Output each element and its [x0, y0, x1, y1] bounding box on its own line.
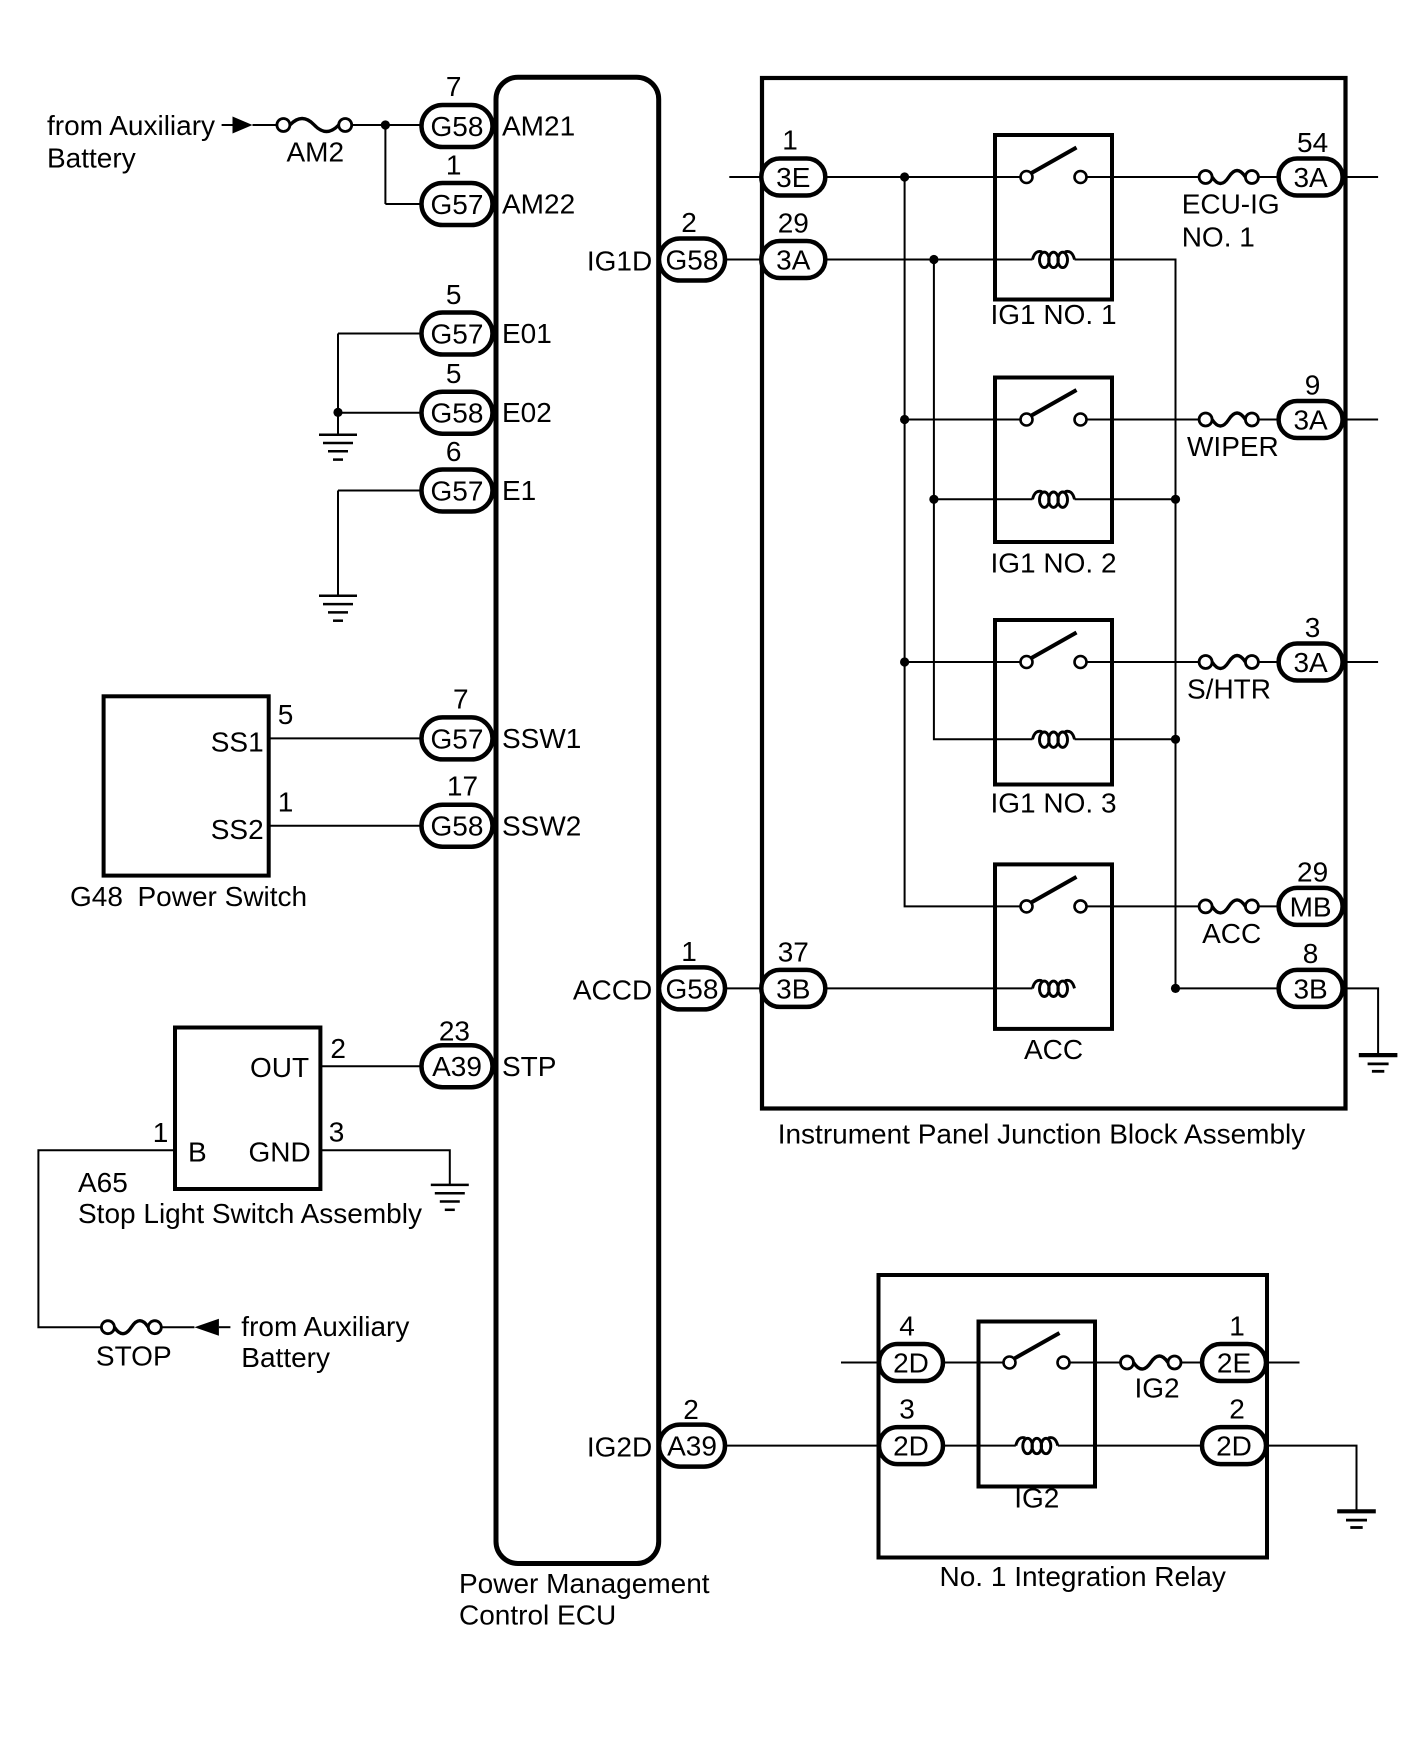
pin 9 label — [1305, 370, 1321, 401]
svg-text:Power Switch: Power Switch — [138, 881, 308, 912]
pin label SSW2 — [502, 810, 581, 841]
svg-text:3B: 3B — [776, 973, 810, 1004]
wire — [943, 1362, 1004, 1364]
pin label STP — [502, 1051, 556, 1082]
node junction — [900, 415, 909, 424]
svg-text:2: 2 — [683, 1394, 699, 1425]
svg-text:IG1 NO. 2: IG1 NO. 2 — [990, 547, 1116, 578]
pin label SS2 — [211, 814, 264, 845]
wire — [161, 1326, 194, 1328]
svg-text:B: B — [188, 1137, 207, 1168]
wire — [825, 259, 1032, 261]
svg-text:Power Management: Power Management — [459, 1568, 710, 1599]
wire — [725, 987, 761, 989]
svg-text:ACC: ACC — [1202, 918, 1261, 949]
svg-text:1: 1 — [278, 787, 294, 818]
svg-text:ACCD: ACCD — [573, 974, 652, 1005]
connector A39 pin 2 IG2D — [659, 1425, 725, 1467]
wire — [1343, 176, 1379, 178]
relay IG2 coil — [1016, 1438, 1058, 1454]
svg-text:G48: G48 — [70, 881, 123, 912]
ground (E01/E02) — [319, 435, 357, 460]
fuse AM2 — [277, 119, 352, 132]
svg-text:STP: STP — [502, 1051, 556, 1082]
pin 2 label — [683, 1394, 699, 1425]
svg-text:5: 5 — [446, 358, 462, 389]
pin 4 label — [899, 1311, 915, 1342]
svg-text:ACC: ACC — [1024, 1034, 1083, 1065]
wire — [729, 176, 761, 178]
label fuse ACC — [1202, 918, 1261, 949]
wire — [337, 491, 339, 596]
pin 1 label — [446, 150, 462, 181]
fuse ACC — [1199, 900, 1258, 913]
wire — [1070, 1362, 1121, 1364]
svg-text:STOP: STOP — [96, 1340, 172, 1371]
wire — [1258, 419, 1278, 421]
svg-text:6: 6 — [446, 436, 462, 467]
svg-text:2: 2 — [681, 207, 697, 238]
pin label OUT — [250, 1052, 309, 1083]
wire — [1075, 738, 1176, 740]
pin 29 label — [1297, 856, 1328, 887]
pin 8 label — [1303, 938, 1319, 969]
svg-text:G57: G57 — [431, 723, 484, 754]
connector A39 pin 23 STP — [422, 1045, 493, 1087]
wire vertical bus A — [905, 177, 1021, 906]
pin 23 label — [439, 1015, 470, 1046]
connector 3E pin 1 — [761, 159, 825, 196]
component G48 Power Switch box — [104, 696, 269, 875]
pin label SSW1 — [502, 723, 581, 754]
ground (A65 GND) — [431, 1185, 469, 1210]
label fuse WIPER — [1187, 431, 1279, 462]
svg-text:IG2D: IG2D — [587, 1432, 652, 1463]
svg-text:2: 2 — [1229, 1394, 1245, 1425]
wire — [219, 1326, 231, 1328]
fuse IG2 — [1121, 1356, 1182, 1369]
svg-text:2: 2 — [330, 1033, 346, 1064]
wire — [841, 1362, 879, 1364]
wire — [338, 333, 422, 335]
svg-text:GND: GND — [248, 1137, 310, 1168]
label G48 Power Switch — [70, 881, 307, 912]
svg-text:Instrument Panel Junction Bloc: Instrument Panel Junction Block Assembly — [778, 1119, 1306, 1150]
svg-text:from Auxiliary: from Auxiliary — [47, 110, 215, 141]
relay ACC box — [995, 864, 1112, 1029]
wire — [1258, 176, 1278, 178]
svg-text:3E: 3E — [776, 162, 810, 193]
wire — [1258, 905, 1278, 907]
svg-text:1: 1 — [446, 150, 462, 181]
wire — [825, 176, 1020, 178]
node junction — [929, 255, 938, 264]
svg-text:IG1 NO. 1: IG1 NO. 1 — [990, 299, 1116, 330]
pin 7 label — [453, 683, 469, 714]
svg-text:Control ECU: Control ECU — [459, 1600, 616, 1631]
connector G57 pin 5 E01 — [422, 313, 493, 355]
ground (3B) — [1359, 1055, 1398, 1071]
svg-text:from Auxiliary: from Auxiliary — [241, 1311, 409, 1342]
pin 1 label — [1229, 1311, 1245, 1342]
svg-text:G57: G57 — [431, 189, 484, 220]
svg-text:2D: 2D — [1216, 1431, 1252, 1462]
svg-text:3: 3 — [329, 1117, 345, 1148]
svg-text:Stop Light Switch Assembly: Stop Light Switch Assembly — [78, 1198, 422, 1229]
label relay IG1 NO. 1 — [990, 299, 1116, 330]
wire — [269, 825, 422, 827]
wire — [943, 1445, 1016, 1447]
relay IG1 NO. 1 switch contacts — [1021, 148, 1087, 184]
wire — [337, 334, 339, 435]
wire — [1087, 661, 1200, 663]
svg-text:1: 1 — [1229, 1311, 1245, 1342]
svg-text:E1: E1 — [502, 475, 536, 506]
pin label E02 — [502, 397, 552, 428]
pin 2 label — [681, 207, 697, 238]
svg-text:WIPER: WIPER — [1187, 431, 1279, 462]
connector G57 pin 1 AM22 — [422, 183, 493, 225]
label STOP — [96, 1340, 172, 1371]
pin label IG2D — [587, 1432, 652, 1463]
svg-text:G57: G57 — [431, 476, 484, 507]
wire — [1087, 419, 1200, 421]
wire — [1258, 661, 1278, 663]
label fuse S/HTR — [1187, 674, 1271, 705]
pin label B — [188, 1137, 207, 1168]
source text from Auxiliary Battery (top) — [47, 110, 215, 173]
svg-text:NO. 1: NO. 1 — [1182, 222, 1255, 253]
arrow left (battery feed) — [194, 1319, 219, 1336]
pin 1 label — [782, 124, 798, 155]
relay IG1 NO. 2 coil — [1033, 491, 1075, 507]
wire — [1087, 176, 1200, 178]
node junction — [1171, 495, 1180, 504]
svg-text:5: 5 — [278, 699, 294, 730]
wire — [905, 661, 1021, 663]
svg-text:SSW2: SSW2 — [502, 810, 581, 841]
relay ACC coil — [1033, 980, 1075, 996]
wire — [338, 412, 422, 414]
wire — [1181, 1362, 1202, 1364]
relay IG1 NO. 3 switch contacts — [1021, 633, 1087, 669]
wire — [320, 1065, 421, 1067]
svg-text:G57: G57 — [431, 319, 484, 350]
wire — [934, 498, 1033, 500]
svg-text:3A: 3A — [776, 245, 811, 276]
wire — [1266, 1362, 1300, 1364]
connector 2D pin 4 — [879, 1344, 943, 1381]
pin 2 label — [330, 1033, 346, 1064]
connector MB pin 29 — [1279, 888, 1343, 925]
pin 54 label — [1297, 127, 1328, 158]
pin 6 label — [446, 436, 462, 467]
relay IG1 NO. 1 coil — [1033, 251, 1075, 267]
label relay IG1 NO. 2 — [990, 547, 1116, 578]
connector 3B pin 8 — [1279, 970, 1343, 1007]
pin label GND — [248, 1137, 310, 1168]
pin 5 label — [446, 358, 462, 389]
wire — [338, 490, 422, 492]
svg-text:IG2: IG2 — [1014, 1483, 1059, 1514]
svg-text:7: 7 — [453, 683, 469, 714]
wire — [825, 987, 1032, 989]
svg-text:5: 5 — [446, 279, 462, 310]
relay IG2 box — [979, 1322, 1096, 1487]
fuse WIPER — [1199, 413, 1258, 426]
svg-text:2D: 2D — [893, 1431, 929, 1462]
svg-text:1: 1 — [681, 936, 697, 967]
node junction — [900, 657, 909, 666]
svg-text:Battery: Battery — [241, 1342, 330, 1373]
wire — [1343, 988, 1379, 1055]
label relay IG1 NO. 3 — [990, 787, 1116, 818]
pin 5 label — [278, 699, 294, 730]
relay IG1 NO. 2 switch contacts — [1021, 390, 1087, 426]
svg-text:7: 7 — [446, 71, 462, 102]
wire — [725, 259, 761, 261]
svg-text:29: 29 — [778, 208, 809, 239]
ground (No. 1 Integration Relay) — [1337, 1511, 1376, 1527]
svg-text:3A: 3A — [1293, 405, 1328, 436]
svg-text:8: 8 — [1303, 938, 1319, 969]
pin label IG1D — [587, 246, 652, 277]
node junction to AM21/AM22 — [381, 120, 390, 129]
node junction — [1171, 735, 1180, 744]
label fuse ECU-IG NO. 1 — [1182, 189, 1280, 253]
relay IG1 NO. 1 box — [995, 135, 1112, 300]
pin 1 label — [153, 1117, 169, 1148]
connector G58 pin 5 E02 — [422, 392, 493, 434]
pin 1 label — [681, 936, 697, 967]
svg-text:G58: G58 — [431, 398, 484, 429]
svg-text:No. 1 Integration Relay: No. 1 Integration Relay — [940, 1561, 1226, 1592]
pin label SS1 — [211, 727, 264, 758]
label No. 1 Integration Relay — [940, 1561, 1226, 1592]
pin 37 label — [778, 937, 809, 968]
wire — [905, 419, 1021, 421]
ground (E1) — [319, 596, 357, 621]
svg-text:3A: 3A — [1293, 647, 1328, 678]
svg-text:SSW1: SSW1 — [502, 723, 581, 754]
label A65 Stop Light Switch Assembly — [78, 1167, 422, 1229]
wire — [1087, 905, 1200, 907]
svg-text:23: 23 — [439, 1015, 470, 1046]
label relay IG2 — [1014, 1483, 1059, 1514]
svg-text:3: 3 — [899, 1394, 915, 1425]
connector 3A pin 9 — [1279, 401, 1343, 438]
Instrument Panel Junction Block Assembly outline — [762, 78, 1346, 1109]
wire — [725, 1445, 879, 1447]
label Power Management Control ECU — [459, 1568, 710, 1631]
svg-text:4: 4 — [899, 1311, 915, 1342]
svg-text:Battery: Battery — [47, 143, 136, 174]
wire — [1343, 661, 1379, 663]
pin 17 label — [447, 771, 478, 802]
pin 5 label — [446, 279, 462, 310]
wire — [1058, 1445, 1202, 1447]
source text from Auxiliary Battery (bottom) — [241, 1311, 409, 1373]
svg-text:1: 1 — [782, 124, 798, 155]
svg-text:G58: G58 — [666, 973, 719, 1004]
label fuse IG2 — [1135, 1373, 1180, 1404]
fuse ECU-IG NO. 1 — [1199, 171, 1258, 184]
svg-text:3B: 3B — [1293, 973, 1327, 1004]
wire — [1266, 1446, 1357, 1512]
svg-text:G58: G58 — [666, 245, 719, 276]
No. 1 Integration Relay outline — [879, 1275, 1268, 1558]
pin 2 label — [1229, 1394, 1245, 1425]
arrow right (battery feed) — [233, 117, 253, 134]
svg-text:E01: E01 — [502, 318, 552, 349]
svg-text:2E: 2E — [1217, 1348, 1251, 1379]
relay IG1 NO. 3 coil — [1033, 731, 1075, 747]
pin 7 label — [446, 71, 462, 102]
pin 29 label — [778, 208, 809, 239]
connector 3A pin 29 — [761, 241, 825, 278]
svg-text:E02: E02 — [502, 397, 552, 428]
pin label E1 — [502, 475, 536, 506]
svg-text:17: 17 — [447, 771, 478, 802]
svg-text:G58: G58 — [431, 111, 484, 142]
connector G57 pin 6 E1 — [422, 470, 493, 512]
wire — [352, 124, 422, 126]
node junction — [900, 172, 909, 181]
connector 3B pin 37 — [761, 970, 825, 1007]
svg-text:2D: 2D — [893, 1348, 929, 1379]
pin 3 label — [899, 1394, 915, 1425]
label relay ACC — [1024, 1034, 1083, 1065]
svg-text:MB: MB — [1290, 891, 1332, 922]
svg-text:9: 9 — [1305, 370, 1321, 401]
connector G58 pin 1 ACCD — [659, 967, 725, 1009]
connector G57 pin 7 SSW1 — [422, 717, 493, 759]
svg-text:A65: A65 — [78, 1167, 128, 1198]
svg-text:AM2: AM2 — [287, 136, 345, 167]
relay IG1 NO. 2 box — [995, 378, 1112, 543]
wire — [385, 203, 421, 205]
svg-text:54: 54 — [1297, 127, 1328, 158]
pin label AM21 — [502, 111, 575, 142]
connector 2D pin 2 — [1202, 1427, 1266, 1464]
wire — [1343, 419, 1379, 421]
connector 2E pin 1 — [1202, 1344, 1266, 1381]
wire — [38, 1150, 175, 1327]
svg-text:29: 29 — [1297, 856, 1328, 887]
wire — [384, 125, 386, 204]
wire — [269, 737, 422, 739]
label AM2 — [287, 136, 345, 167]
connector G58 pin 2 IG1D — [659, 239, 725, 281]
node junction — [1171, 984, 1180, 993]
svg-text:SS1: SS1 — [211, 727, 264, 758]
node junction E01/E02 ground — [333, 408, 342, 417]
svg-text:OUT: OUT — [250, 1052, 309, 1083]
wire — [222, 124, 233, 126]
wire — [320, 1150, 449, 1185]
wire — [1075, 498, 1176, 500]
pin 3 label — [329, 1117, 345, 1148]
pin label E01 — [502, 318, 552, 349]
connector 3A pin 3 — [1279, 644, 1343, 681]
fuse STOP — [101, 1321, 161, 1334]
fuse S/HTR — [1199, 656, 1258, 669]
svg-text:IG2: IG2 — [1135, 1373, 1180, 1404]
svg-text:3A: 3A — [1293, 162, 1328, 193]
svg-text:ECU-IG: ECU-IG — [1182, 189, 1280, 220]
connector 2D pin 3 — [879, 1427, 943, 1464]
pin label ACCD — [573, 974, 652, 1005]
svg-text:AM22: AM22 — [502, 189, 575, 220]
svg-text:A39: A39 — [667, 1431, 717, 1462]
connector G58 pin 7 AM21 — [422, 105, 493, 147]
svg-text:A39: A39 — [432, 1051, 482, 1082]
connector 3A pin 54 — [1279, 159, 1343, 196]
connector G58 pin 17 SSW2 — [422, 805, 493, 847]
wire vertical bus B — [934, 260, 1033, 740]
pin label AM22 — [502, 189, 575, 220]
svg-text:IG1D: IG1D — [587, 246, 652, 277]
svg-text:IG1 NO. 3: IG1 NO. 3 — [990, 787, 1116, 818]
node junction — [929, 495, 938, 504]
ECU U1 Power Management Control ECU outline — [496, 77, 659, 1563]
pin 3 label — [1305, 612, 1321, 643]
svg-text:SS2: SS2 — [211, 814, 264, 845]
relay ACC switch contacts — [1021, 877, 1087, 913]
wire — [1176, 987, 1279, 989]
svg-text:S/HTR: S/HTR — [1187, 674, 1271, 705]
label Instrument Panel Junction Block Assembly — [778, 1119, 1306, 1150]
svg-text:G58: G58 — [431, 811, 484, 842]
component A65 Stop Light Switch Assembly box — [175, 1028, 320, 1190]
pin 1 label — [278, 787, 294, 818]
svg-text:3: 3 — [1305, 612, 1321, 643]
svg-text:1: 1 — [153, 1117, 169, 1148]
svg-text:AM21: AM21 — [502, 111, 575, 142]
relay IG2 switch contacts — [1004, 1333, 1070, 1369]
wire vertical bus C — [1075, 260, 1176, 989]
wire — [253, 124, 277, 126]
relay IG1 NO. 3 box — [995, 620, 1112, 785]
svg-text:37: 37 — [778, 937, 809, 968]
